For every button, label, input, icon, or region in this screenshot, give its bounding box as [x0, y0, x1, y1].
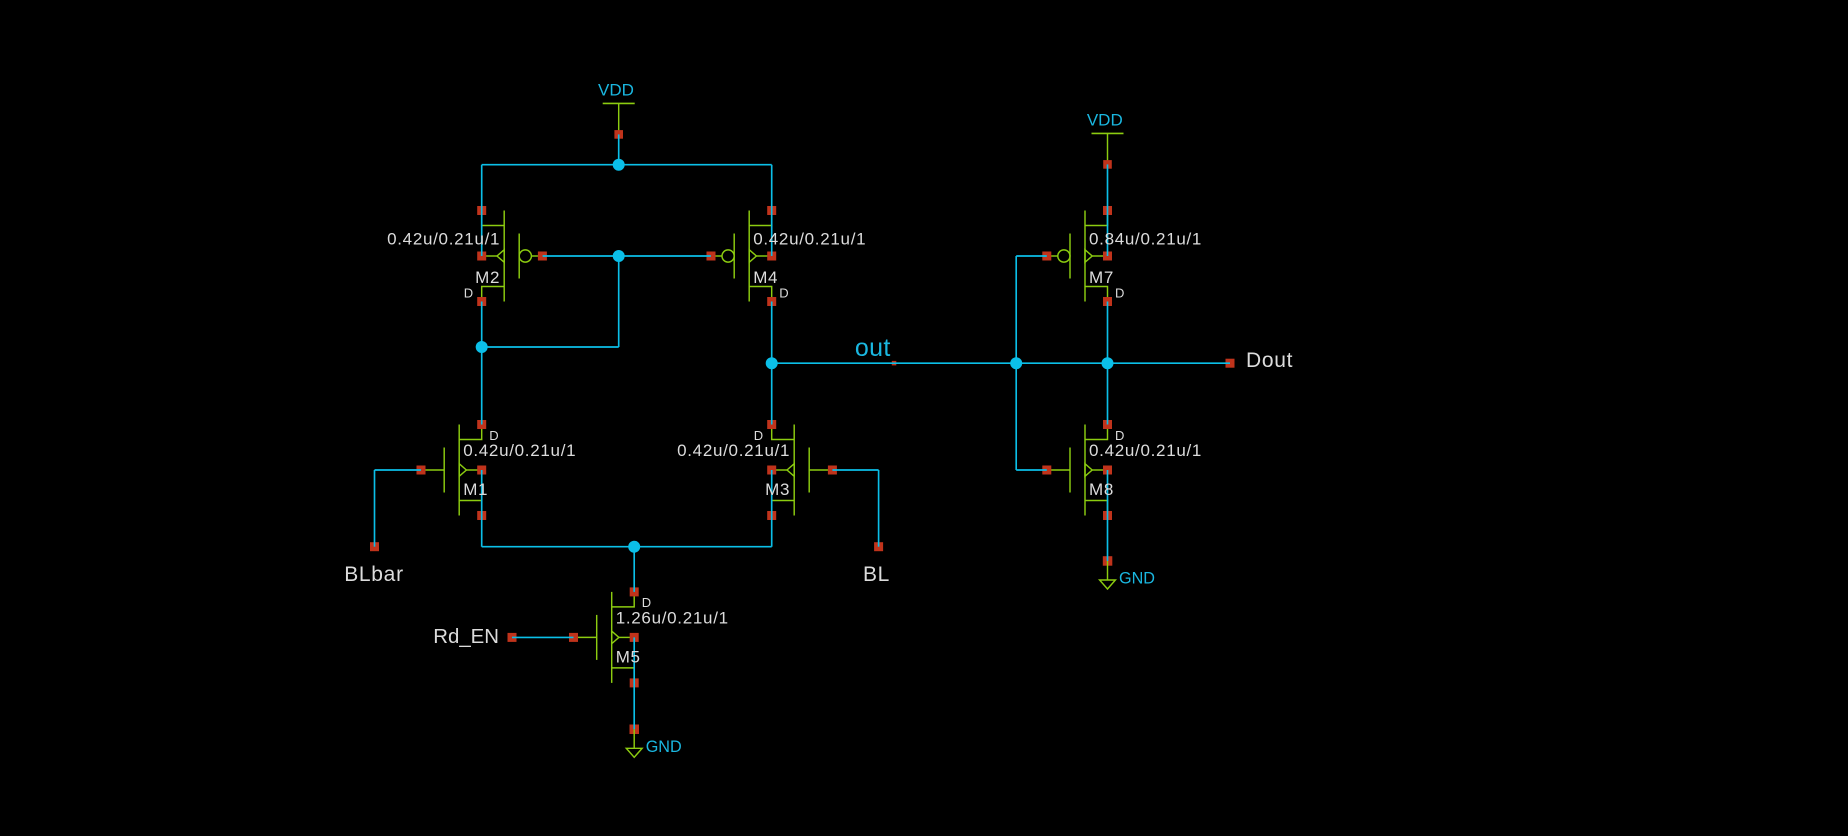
svg-text:M7: M7: [1089, 268, 1114, 287]
svg-text:D: D: [779, 285, 788, 300]
svg-text:GND: GND: [646, 738, 682, 756]
svg-text:M1: M1: [463, 480, 488, 499]
svg-text:D: D: [1115, 285, 1124, 300]
svg-text:M8: M8: [1089, 480, 1114, 499]
svg-text:GND: GND: [1119, 570, 1155, 588]
svg-text:M2: M2: [475, 268, 500, 287]
svg-text:0.42u/0.21u/1: 0.42u/0.21u/1: [1089, 441, 1202, 460]
svg-text:M4: M4: [753, 268, 778, 287]
svg-text:D: D: [754, 428, 763, 443]
svg-text:0.42u/0.21u/1: 0.42u/0.21u/1: [677, 441, 790, 460]
svg-text:D: D: [642, 595, 651, 610]
svg-text:BL: BL: [863, 563, 890, 586]
svg-text:M5: M5: [616, 647, 641, 666]
svg-text:D: D: [1115, 428, 1124, 443]
svg-text:D: D: [464, 285, 473, 300]
svg-text:out: out: [855, 334, 891, 362]
svg-text:0.84u/0.21u/1: 0.84u/0.21u/1: [1089, 229, 1202, 248]
svg-text:0.42u/0.21u/1: 0.42u/0.21u/1: [387, 229, 500, 248]
svg-text:BLbar: BLbar: [344, 563, 404, 586]
svg-text:Dout: Dout: [1246, 349, 1293, 372]
svg-text:D: D: [489, 428, 498, 443]
svg-text:0.42u/0.21u/1: 0.42u/0.21u/1: [463, 441, 576, 460]
svg-text:VDD: VDD: [598, 80, 634, 99]
svg-text:M3: M3: [765, 480, 790, 499]
svg-text:1.26u/0.21u/1: 1.26u/0.21u/1: [616, 608, 729, 627]
svg-text:Rd_EN: Rd_EN: [433, 626, 499, 648]
svg-text:0.42u/0.21u/1: 0.42u/0.21u/1: [753, 229, 866, 248]
svg-text:VDD: VDD: [1087, 110, 1123, 129]
